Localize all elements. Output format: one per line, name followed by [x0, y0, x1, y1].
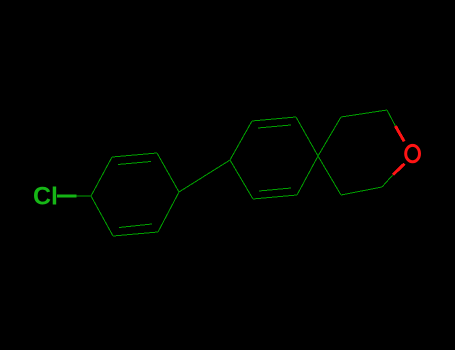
svg-text:Cl: Cl	[33, 183, 58, 211]
ring A edge B-C top	[112, 153, 157, 157]
ring B edge TR-X	[296, 117, 318, 156]
bond Cl-C1 bright half	[57, 195, 77, 198]
ring C edge X-T1	[318, 117, 341, 156]
ring B edge BL-L	[230, 160, 253, 199]
ring B edge BR-BL bottom	[253, 195, 297, 199]
bond D-L connector	[179, 160, 230, 192]
ring B edge X-BR	[297, 156, 318, 195]
ring A edge A-B	[91, 157, 112, 196]
ring B inner double bond bottom	[259, 188, 291, 191]
ring A edge D-E	[158, 192, 179, 232]
ring A inner double bond top	[118, 162, 151, 165]
ring C edge T1-T2 top	[341, 110, 387, 117]
ring B edge L-TL	[230, 121, 252, 160]
bond Cl-C1 carbon half	[77, 195, 92, 197]
ring A edge E-F bottom	[113, 232, 158, 236]
ring A edge F-A	[91, 196, 113, 236]
ring B edge TL-TR top	[252, 117, 296, 121]
ring C edge O-B2 carbon half	[382, 175, 393, 187]
ring C edge T2-O carbon half	[387, 110, 395, 126]
ring C edge O-B2 oxygen half	[393, 164, 405, 175]
ring A edge C-D	[157, 153, 179, 192]
ring C edge B1-X	[318, 156, 341, 195]
ring A inner double bond bottom	[119, 224, 152, 228]
atom label O	[406, 145, 420, 161]
ring C edge T2-O oxygen half	[395, 126, 404, 142]
ring C edge B2-B1 bottom	[341, 187, 382, 195]
ring B inner double bond top	[258, 125, 291, 128]
